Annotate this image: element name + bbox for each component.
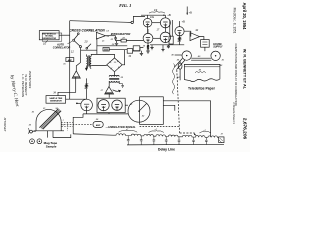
- meter box: [127, 49, 132, 54]
- wire bus vertical: [69, 21, 71, 100]
- tube V1: [143, 18, 152, 27]
- op-amp triangle integrator: [96, 32, 105, 39]
- footer inventor 1: [24, 74, 28, 96]
- resistor R int: [121, 39, 126, 42]
- tube V7: [98, 100, 109, 111]
- resistor below V5: [178, 36, 180, 45]
- svg-text:+B: +B: [182, 20, 186, 24]
- wire meter right hook: [133, 48, 144, 51]
- tube V5: [175, 27, 184, 36]
- box push-pull: [97, 98, 125, 112]
- brace 19: [149, 12, 165, 14]
- wire ref out: [59, 34, 70, 36]
- box motor: [201, 40, 210, 48]
- wire box to disc: [125, 104, 128, 106]
- wire to pulley left: [175, 54, 182, 56]
- wire stub ground x163: [161, 45, 164, 52]
- resistor below transducer: [85, 78, 87, 99]
- svg-text:April 20, 1954: April 20, 1954: [242, 2, 247, 30]
- ground below V3: [146, 51, 150, 53]
- switch S1: [73, 39, 75, 41]
- footer inventors label: [28, 71, 32, 88]
- box reference signal generator: [39, 31, 59, 40]
- svg-text:+B: +B: [167, 13, 171, 17]
- ground int: [115, 41, 118, 46]
- trace mark 45: [195, 71, 206, 73]
- wire transducer to gen: [58, 77, 76, 95]
- box small relay: [133, 46, 140, 51]
- belt top: [191, 58, 211, 60]
- dashed undelayed line: [61, 124, 93, 126]
- wire amp out: [106, 35, 116, 37]
- stylus: [178, 63, 182, 69]
- tube V3: [143, 33, 153, 43]
- svg-text:INTEGRATOR: INTEGRATOR: [111, 32, 131, 36]
- svg-text:2,676,206: 2,676,206: [242, 118, 248, 140]
- svg-text:GENERATOR: GENERATOR: [42, 37, 56, 40]
- ground relay: [140, 51, 143, 56]
- wire V3-V4 coupling: [153, 37, 160, 39]
- wire grid hook 18a: [133, 16, 145, 22]
- wire switch verticals: [76, 48, 80, 71]
- triangle amp down: [105, 87, 114, 94]
- svg-text:FIG. 1: FIG. 1: [119, 3, 131, 8]
- box AMP2: [93, 122, 103, 128]
- svg-text:—UNDELAYED SIGNAL: —UNDELAYED SIGNAL: [105, 125, 136, 129]
- delay line braces: [119, 130, 138, 132]
- dash mech vertical: [177, 70, 195, 133]
- resistor box R: [169, 36, 173, 44]
- capacitor to ground right: [167, 45, 170, 49]
- wire mid rail: [81, 39, 127, 54]
- wire bottom rail of tube group: [150, 44, 184, 46]
- ground mid: [150, 45, 153, 50]
- svg-text:Teledeltos Paper: Teledeltos Paper: [188, 87, 216, 91]
- tube V2: [160, 18, 170, 28]
- wire V1-V3: [147, 27, 149, 33]
- disc scanner: [128, 100, 150, 122]
- svg-text:CORRELATOR: CORRELATOR: [53, 46, 71, 49]
- wire scanner out long: [163, 101, 210, 137]
- lead wiggle: [173, 64, 175, 95]
- svg-text:20: 20: [84, 39, 88, 43]
- svg-text:AMP: AMP: [96, 124, 101, 127]
- wire bottom rail tubes: [83, 113, 128, 115]
- wire scanner out short: [163, 105, 175, 110]
- tube V6: [81, 99, 93, 111]
- diode bridge: [107, 58, 122, 72]
- wire +B rail top: [141, 14, 166, 16]
- footer signature: [10, 75, 21, 108]
- svg-text:COMPUTATION AND DISPLAY OF COR: COMPUTATION AND DISPLAY OF CORRELATION: [234, 43, 238, 105]
- pickup left bits: [30, 130, 33, 133]
- resistor below V3: [147, 43, 149, 51]
- +B feed: [186, 7, 188, 15]
- wire drum bottom: [48, 131, 71, 138]
- transducer triangle: [72, 71, 80, 78]
- wire +B arrow at V5: [179, 20, 181, 22]
- delay line ladder: [113, 134, 219, 138]
- header inventor name: [243, 49, 247, 90]
- svg-text:W. R. BENNETT ET AL: W. R. BENNETT ET AL: [243, 49, 247, 90]
- pulley right: [211, 51, 220, 60]
- svg-text:AMP: AMP: [68, 59, 73, 62]
- wire bridge right up: [122, 50, 124, 65]
- svg-text:SUPPLY: SUPPLY: [213, 46, 223, 49]
- svg-text:Filed Dec. 8, 1951: Filed Dec. 8, 1951: [233, 8, 237, 34]
- drum mag tape: [36, 109, 61, 130]
- svg-text:GENERATOR: GENERATOR: [50, 100, 63, 103]
- delay line bottom rail: [127, 143, 224, 146]
- ground T2: [119, 84, 123, 88]
- svg-text:Delay Line: Delay Line: [158, 147, 175, 151]
- pulley left: [182, 51, 191, 60]
- svg-text:18a: 18a: [150, 16, 155, 19]
- wire gen to tube: [66, 98, 87, 100]
- transformer T1: [86, 56, 87, 68]
- transformer T2: [109, 75, 119, 76]
- delay line input wire: [73, 134, 113, 135]
- belt: [174, 58, 185, 69]
- header title: [234, 43, 238, 105]
- wire drum dashed taps: [61, 122, 73, 131]
- svg-text:Sample: Sample: [46, 144, 57, 148]
- delay line termination: [219, 137, 224, 143]
- wire to V3: [126, 40, 143, 42]
- header filed: [233, 8, 237, 34]
- wire V1-V2 coupling: [152, 22, 161, 24]
- capacitor C int: [114, 36, 121, 41]
- header date: [242, 2, 247, 30]
- box impulse generator: [46, 96, 66, 104]
- svg-text:19: 19: [154, 8, 158, 12]
- footer inventor 2: [21, 74, 25, 97]
- svg-text:+B: +B: [189, 10, 193, 14]
- svg-text:L. C. PETERSON: L. C. PETERSON: [21, 74, 25, 97]
- wire osc to meter: [109, 48, 127, 50]
- dashed to mech: [140, 126, 180, 128]
- svg-text:2 Sheets-Sheet 1: 2 Sheets-Sheet 1: [232, 102, 236, 124]
- box AMP left: [66, 58, 74, 62]
- wire to drum column: [73, 114, 83, 134]
- wire V5 output to amp: [184, 31, 191, 36]
- header sheets: [232, 102, 236, 124]
- node left terminal: [76, 103, 78, 105]
- box oscillator: [103, 48, 109, 52]
- wire pair left of V5: [170, 20, 173, 36]
- wire top horizontal to input terminal: [70, 21, 131, 23]
- delay line shunt capacitors: [127, 136, 208, 145]
- tube V8: [112, 100, 122, 110]
- jack terminals: [30, 139, 35, 144]
- paper sheet: [184, 64, 220, 81]
- box scanner: [140, 97, 164, 125]
- svg-text:CROSS CORRELATION: CROSS CORRELATION: [69, 29, 105, 33]
- node input terminal: [131, 21, 133, 23]
- svg-text:SAMPLE TIME: SAMPLE TIME: [49, 97, 63, 100]
- svg-text:ATTORNEY: ATTORNEY: [3, 118, 7, 132]
- amp triangle record: [190, 33, 200, 41]
- header patent number: [242, 118, 248, 140]
- tube V4: [160, 32, 170, 42]
- footer attorney: [3, 118, 7, 132]
